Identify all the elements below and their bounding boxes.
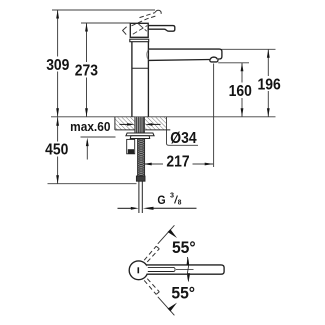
dashed spout rotated up: [144, 246, 159, 262]
aerator: [210, 57, 218, 62]
counter slab hatch left: [115, 117, 134, 129]
dimension 196 arrows: [267, 49, 270, 58]
svg-text:160: 160: [229, 82, 252, 100]
svg-text:450: 450: [45, 141, 68, 159]
G3/8 arrows: [118, 207, 197, 209]
dimension 160 arrows: [241, 63, 244, 72]
dimension 217 arrows: [143, 163, 152, 166]
svg-text:8: 8: [178, 199, 182, 206]
washer plate: [126, 133, 154, 136]
upper rotation arrow: [168, 229, 177, 238]
dimension 273 arrows: [85, 23, 88, 32]
dimension 217 line: [143, 163, 213, 165]
extension line head top: [81, 22, 130, 24]
max.60 slab arrows: [120, 123, 161, 126]
dimension 196 line: [267, 49, 269, 117]
swivel circle: [129, 261, 148, 280]
spout: [148, 49, 222, 59]
faucet collar: [130, 39, 149, 42]
swivel arc arrows: [187, 257, 188, 282]
body joint line: [132, 67, 149, 69]
lever handle: [148, 26, 175, 32]
head block inner dashes: [133, 24, 147, 34]
lower rotation arrow: [168, 303, 177, 312]
spout bar top view: [147, 265, 225, 274]
dimension 309 line: [57, 10, 59, 117]
dashed spout rotated down: [144, 279, 159, 295]
extension line hose end: [48, 183, 137, 185]
mounting nut: [130, 136, 149, 139]
hose hex fitting: [136, 176, 145, 181]
faucet head block: [130, 23, 148, 37]
svg-text:55°: 55°: [171, 284, 195, 302]
dimension 450 arrows: [56, 117, 59, 126]
extension line aerator center vertical: [213, 64, 215, 168]
inner center line: [176, 268, 194, 270]
faucet body: [132, 42, 149, 117]
svg-text:55°: 55°: [172, 239, 196, 257]
svg-text:196: 196: [257, 75, 280, 93]
svg-text:273: 273: [75, 62, 98, 80]
svg-text:max.60: max.60: [70, 119, 110, 134]
fixing screw: [127, 139, 135, 153]
inner handle rect: [148, 267, 175, 271]
dashed lever rear chevron: [123, 27, 127, 35]
dimension 309 arrows: [56, 10, 59, 19]
max.60 underline: [81, 136, 116, 138]
svg-text:G: G: [157, 194, 166, 207]
upper 55 leader: [158, 225, 175, 244]
extension line top (lever raised tip level): [52, 9, 155, 11]
center tick: [137, 267, 139, 273]
dimension 160 line: [241, 63, 243, 117]
braided hose: [138, 139, 145, 177]
spout bottom edge: [148, 59, 210, 62]
extension line aerator outlet right: [218, 62, 249, 64]
Ø34 elbow leader and underline: [167, 117, 199, 146]
extension line counter top: [51, 116, 276, 118]
svg-text:Ø34: Ø34: [170, 129, 197, 147]
svg-text:309: 309: [46, 56, 69, 74]
threaded shank through counter: [135, 117, 145, 133]
spout body junction arc: [147, 50, 149, 60]
max.60 arrow: [86, 141, 88, 160]
svg-text:217: 217: [166, 153, 189, 171]
extension line spout top right: [222, 48, 276, 50]
lower 55 leader: [158, 297, 175, 316]
svg-text:3: 3: [170, 190, 174, 199]
counter slab hatch right: [145, 117, 166, 129]
dimension 450 line: [57, 117, 59, 184]
dimension 273 line: [86, 23, 88, 117]
dashed lever raised: [132, 10, 162, 26]
counter slab outline: [115, 117, 170, 130]
supply tube: [139, 181, 142, 213]
